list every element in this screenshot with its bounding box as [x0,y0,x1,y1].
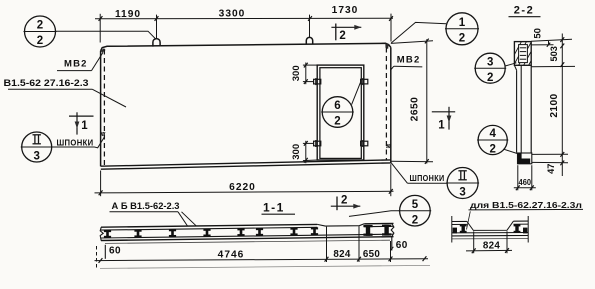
svg-text:2: 2 [339,30,345,42]
svg-text:824: 824 [483,240,500,251]
svg-text:2: 2 [37,35,43,47]
svg-text:5: 5 [412,199,419,211]
svg-text:4746: 4746 [218,249,245,260]
svg-text:2: 2 [487,72,493,84]
svg-text:4: 4 [489,128,496,140]
svg-text:60: 60 [396,240,408,251]
svg-text:1-1: 1-1 [263,200,285,214]
svg-text:460: 460 [519,178,532,187]
svg-text:3: 3 [487,56,493,68]
svg-text:2: 2 [489,144,495,156]
svg-text:ШПОНКИ: ШПОНКИ [57,138,94,148]
svg-text:50: 50 [533,28,544,39]
svg-text:503: 503 [549,46,559,61]
svg-text:3: 3 [33,151,39,163]
svg-text:ШПОНКИ: ШПОНКИ [410,173,445,183]
svg-text:650: 650 [363,249,380,260]
svg-text:6220: 6220 [229,182,256,193]
svg-text:1: 1 [459,17,466,29]
svg-text:для В1.5-62.27.16-2.3л: для В1.5-62.27.16-2.3л [470,200,582,210]
svg-text:2-2: 2-2 [514,5,534,17]
svg-text:2: 2 [412,214,418,226]
svg-text:1: 1 [438,120,445,132]
svg-text:47: 47 [546,164,556,174]
svg-text:6: 6 [334,100,340,112]
svg-text:2650: 2650 [410,97,421,122]
svg-text:824: 824 [333,249,350,260]
svg-text:МВ2: МВ2 [64,59,88,70]
svg-text:1730: 1730 [332,5,359,16]
svg-text:2100: 2100 [549,93,560,117]
svg-text:1190: 1190 [115,9,141,20]
svg-text:1: 1 [81,120,88,132]
svg-text:60: 60 [109,246,121,257]
svg-text:2: 2 [334,116,340,128]
svg-text:300: 300 [291,65,302,81]
svg-text:А Б В1.5-62-2.3: А Б В1.5-62-2.3 [112,201,180,212]
svg-text:В1.5-62 27.16-2.3: В1.5-62 27.16-2.3 [4,78,89,89]
svg-text:300: 300 [291,144,302,160]
svg-text:3: 3 [459,187,465,199]
svg-text:2: 2 [459,32,465,44]
svg-text:2: 2 [37,20,43,32]
svg-text:3300: 3300 [219,9,246,20]
svg-text:2: 2 [341,195,347,207]
svg-text:МВ2: МВ2 [397,54,421,65]
